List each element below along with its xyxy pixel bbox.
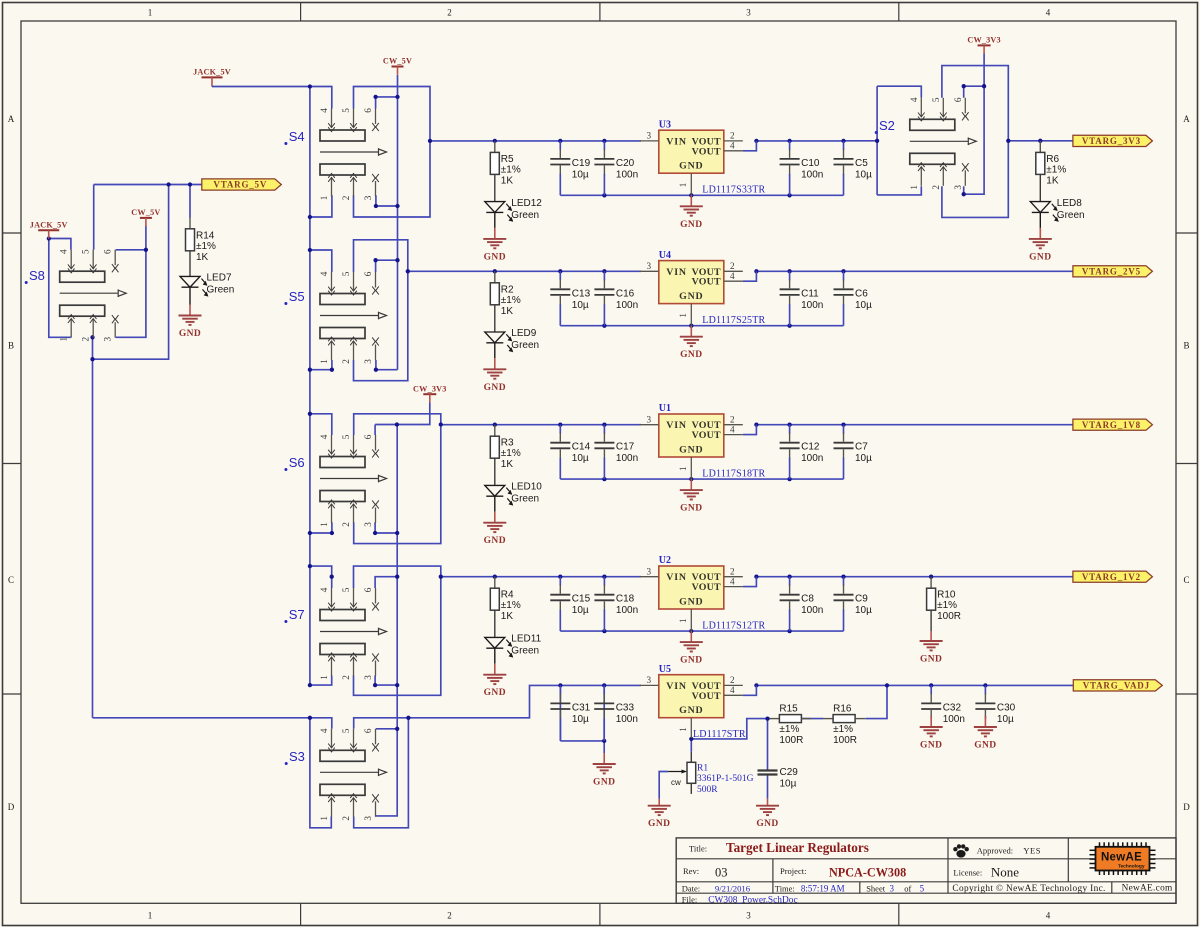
svg-text:LD1117STR: LD1117STR [693, 729, 746, 740]
svg-text:GND: GND [679, 161, 703, 172]
svg-text:YES: YES [1023, 846, 1041, 856]
svg-text:Green: Green [1057, 210, 1085, 221]
svg-text:±1%: ±1% [501, 600, 521, 611]
svg-text:9/21/2016: 9/21/2016 [715, 883, 751, 893]
svg-text:VIN: VIN [666, 572, 687, 583]
svg-text:10µ: 10µ [855, 453, 872, 464]
svg-text:4: 4 [319, 587, 329, 592]
svg-text:CW_3V3: CW_3V3 [413, 384, 447, 393]
svg-text:CW_5V: CW_5V [131, 208, 160, 217]
svg-text:8:57:19 AM: 8:57:19 AM [801, 883, 845, 893]
svg-text:VTARG_VADJ: VTARG_VADJ [1083, 681, 1150, 691]
svg-text:U2: U2 [659, 555, 671, 566]
svg-text:GND: GND [1029, 252, 1051, 262]
svg-text:3: 3 [746, 911, 751, 921]
svg-text:6: 6 [363, 728, 373, 733]
svg-text:Sheet: Sheet [866, 883, 886, 893]
svg-text:Technology: Technology [1118, 863, 1145, 869]
svg-text:1K: 1K [501, 306, 514, 317]
svg-text:4: 4 [730, 424, 735, 434]
svg-text:1: 1 [319, 195, 329, 200]
svg-text:R6: R6 [1046, 154, 1059, 165]
svg-text:S6: S6 [289, 455, 305, 470]
svg-text:10µ: 10µ [572, 300, 589, 311]
svg-text:10µ: 10µ [855, 605, 872, 616]
svg-text:C7: C7 [855, 442, 868, 453]
svg-text:VOUT: VOUT [692, 430, 721, 441]
svg-text:C14: C14 [572, 442, 591, 453]
svg-text:C10: C10 [801, 158, 820, 169]
svg-text:6: 6 [363, 271, 373, 276]
svg-text:1: 1 [148, 911, 153, 921]
svg-text:10µ: 10µ [572, 169, 589, 180]
svg-text:Approved:: Approved: [977, 846, 1013, 856]
svg-text:C5: C5 [855, 158, 868, 169]
svg-text:±1%: ±1% [196, 241, 216, 252]
svg-text:GND: GND [680, 220, 702, 230]
svg-text:R16: R16 [833, 704, 852, 715]
svg-text:2: 2 [730, 675, 735, 685]
svg-text:100n: 100n [616, 300, 638, 311]
svg-text:Rev:: Rev: [683, 866, 699, 876]
svg-text:10µ: 10µ [780, 779, 797, 790]
svg-text:VIN: VIN [666, 681, 687, 692]
svg-text:10µ: 10µ [572, 605, 589, 616]
svg-text:4: 4 [730, 685, 735, 695]
svg-text:B: B [1183, 341, 1189, 351]
svg-text:C32: C32 [943, 702, 962, 713]
svg-text:S8: S8 [29, 268, 45, 283]
svg-text:3: 3 [953, 185, 963, 190]
svg-text:GND: GND [484, 688, 506, 698]
svg-text:1: 1 [678, 313, 688, 318]
svg-text:1: 1 [909, 185, 919, 190]
svg-text:Title:: Title: [689, 844, 707, 854]
svg-text:D: D [8, 802, 15, 812]
svg-text:VTARG_1V8: VTARG_1V8 [1082, 420, 1141, 430]
svg-text:2: 2 [730, 415, 735, 425]
svg-text:1K: 1K [501, 611, 514, 622]
svg-text:S3: S3 [289, 749, 305, 764]
svg-text:4: 4 [319, 728, 329, 733]
svg-text:3: 3 [363, 359, 373, 364]
svg-text:GND: GND [920, 741, 942, 751]
svg-text:Project:: Project: [780, 866, 806, 876]
svg-text:NPCA-CW308: NPCA-CW308 [829, 865, 906, 879]
svg-text:3: 3 [103, 336, 113, 341]
svg-text:LD1117S18TR: LD1117S18TR [702, 469, 765, 480]
svg-text:GND: GND [679, 597, 703, 608]
svg-text:4: 4 [730, 271, 735, 281]
svg-text:±1%: ±1% [501, 164, 521, 175]
svg-text:4: 4 [319, 271, 329, 276]
svg-text:03: 03 [715, 865, 728, 879]
svg-text:R4: R4 [501, 590, 514, 601]
svg-text:VTARG_5V: VTARG_5V [213, 180, 267, 190]
svg-text:3: 3 [647, 131, 652, 141]
svg-text:Target Linear Regulators: Target Linear Regulators [726, 840, 869, 855]
svg-text:Date:: Date: [682, 883, 700, 893]
svg-text:1: 1 [678, 182, 688, 187]
svg-text:S7: S7 [289, 607, 305, 622]
svg-text:C16: C16 [616, 288, 635, 299]
svg-text:JACK_5V: JACK_5V [30, 221, 68, 230]
svg-text:100R: 100R [937, 611, 961, 622]
svg-text:GND: GND [756, 819, 778, 829]
svg-text:5: 5 [931, 97, 941, 102]
svg-text:R3: R3 [501, 438, 514, 449]
svg-text:CW308_Power.SchDoc: CW308_Power.SchDoc [708, 896, 797, 906]
svg-text:U5: U5 [659, 664, 671, 675]
svg-text:±1%: ±1% [937, 600, 957, 611]
svg-text:1K: 1K [501, 459, 514, 470]
svg-text:100R: 100R [833, 735, 857, 746]
svg-text:1: 1 [678, 727, 688, 732]
svg-text:2: 2 [730, 567, 735, 577]
svg-text:VTARG_2V5: VTARG_2V5 [1082, 267, 1141, 277]
svg-text:±1%: ±1% [501, 295, 521, 306]
svg-text:3: 3 [363, 522, 373, 527]
svg-text:2: 2 [730, 131, 735, 141]
svg-text:GND: GND [593, 778, 615, 788]
svg-text:1: 1 [59, 336, 69, 341]
svg-text:GND: GND [920, 655, 942, 665]
svg-text:3: 3 [363, 816, 373, 821]
svg-text:5: 5 [341, 434, 351, 439]
svg-text:GND: GND [974, 741, 996, 751]
svg-text:3: 3 [363, 675, 373, 680]
svg-text:4: 4 [1046, 911, 1051, 921]
svg-text:LED9: LED9 [511, 328, 536, 339]
svg-text:100n: 100n [616, 605, 638, 616]
svg-text:6: 6 [953, 97, 963, 102]
svg-text:VTARG_1V2: VTARG_1V2 [1082, 572, 1141, 582]
svg-text:R2: R2 [501, 284, 514, 295]
svg-text:C29: C29 [780, 767, 799, 778]
svg-text:2: 2 [447, 911, 452, 921]
svg-text:4: 4 [1046, 8, 1051, 18]
svg-text:C13: C13 [572, 288, 591, 299]
svg-text:±1%: ±1% [779, 724, 799, 735]
svg-text:2: 2 [341, 359, 351, 364]
svg-text:GND: GND [680, 350, 702, 360]
svg-text:Green: Green [207, 285, 235, 296]
svg-text:4: 4 [909, 97, 919, 102]
svg-text:C: C [8, 575, 14, 585]
svg-text:LED7: LED7 [207, 273, 232, 284]
svg-text:100n: 100n [616, 169, 638, 180]
svg-text:cw: cw [671, 778, 681, 787]
svg-text:Time:: Time: [775, 883, 795, 893]
svg-text:1: 1 [319, 675, 329, 680]
svg-text:JACK_5V: JACK_5V [193, 68, 231, 77]
svg-text:5: 5 [81, 249, 91, 254]
svg-text:C17: C17 [616, 442, 635, 453]
svg-text:GND: GND [679, 291, 703, 302]
svg-text:GND: GND [680, 656, 702, 666]
svg-text:2: 2 [81, 336, 91, 341]
svg-text:1: 1 [319, 359, 329, 364]
svg-text:10µ: 10µ [572, 714, 589, 725]
svg-text:5: 5 [341, 728, 351, 733]
svg-text:Copyright © NewAE Technology I: Copyright © NewAE Technology Inc. [952, 883, 1105, 894]
svg-text:Green: Green [511, 646, 539, 657]
svg-text:D: D [1183, 802, 1190, 812]
svg-text:1: 1 [319, 522, 329, 527]
svg-text:4: 4 [319, 108, 329, 113]
svg-text:100n: 100n [616, 453, 638, 464]
svg-text:VIN: VIN [666, 136, 687, 147]
svg-text:LD1117S33TR: LD1117S33TR [702, 185, 765, 196]
svg-text:Green: Green [511, 210, 539, 221]
svg-text:Green: Green [511, 494, 539, 505]
svg-text:VTARG_3V3: VTARG_3V3 [1082, 136, 1141, 146]
svg-text:C8: C8 [801, 594, 814, 605]
svg-text:GND: GND [679, 445, 703, 456]
svg-text:None: None [991, 865, 1019, 880]
svg-text:6: 6 [363, 434, 373, 439]
svg-text:1K: 1K [196, 252, 209, 263]
svg-text:A: A [1183, 114, 1190, 124]
svg-text:CW_5V: CW_5V [383, 57, 412, 66]
svg-text:10µ: 10µ [572, 453, 589, 464]
svg-text:2: 2 [931, 185, 941, 190]
svg-text:5: 5 [920, 883, 925, 893]
svg-text:VOUT: VOUT [692, 691, 721, 702]
svg-text:R5: R5 [501, 154, 514, 165]
svg-text:VIN: VIN [666, 420, 687, 431]
svg-text:U3: U3 [659, 119, 671, 130]
svg-text:GND: GND [648, 819, 670, 829]
svg-text:C12: C12 [801, 442, 820, 453]
svg-text:100n: 100n [801, 453, 823, 464]
svg-text:4: 4 [730, 141, 735, 151]
svg-text:C11: C11 [801, 288, 819, 299]
svg-text:2: 2 [341, 195, 351, 200]
svg-text:LD1117S12TR: LD1117S12TR [702, 621, 765, 632]
svg-text:3: 3 [647, 567, 652, 577]
svg-text:C6: C6 [855, 288, 868, 299]
svg-text:3: 3 [890, 883, 895, 893]
svg-text:VOUT: VOUT [692, 582, 721, 593]
svg-text:C9: C9 [855, 594, 868, 605]
svg-text:100n: 100n [801, 300, 823, 311]
svg-text:500R: 500R [697, 785, 718, 795]
svg-text:of: of [904, 883, 911, 893]
svg-text:A: A [8, 114, 15, 124]
svg-text:10µ: 10µ [855, 300, 872, 311]
svg-text:LED8: LED8 [1057, 198, 1082, 209]
svg-text:100n: 100n [801, 169, 823, 180]
svg-text:NewAE.com: NewAE.com [1122, 884, 1173, 894]
svg-text:C19: C19 [572, 158, 591, 169]
svg-text:4: 4 [319, 434, 329, 439]
svg-text:1: 1 [678, 466, 688, 471]
svg-text:2: 2 [341, 675, 351, 680]
svg-text:GND: GND [484, 383, 506, 393]
svg-text:GND: GND [484, 252, 506, 262]
svg-text:C20: C20 [616, 158, 635, 169]
svg-text:100n: 100n [801, 605, 823, 616]
svg-text:VOUT: VOUT [692, 146, 721, 157]
svg-text:GND: GND [680, 504, 702, 514]
svg-text:File:: File: [682, 895, 698, 905]
svg-text:U4: U4 [659, 250, 671, 261]
svg-text:C31: C31 [572, 702, 591, 713]
svg-text:1K: 1K [501, 175, 514, 186]
svg-text:C30: C30 [997, 702, 1016, 713]
svg-text:R14: R14 [196, 230, 215, 241]
svg-text:5: 5 [341, 587, 351, 592]
svg-text:10µ: 10µ [855, 169, 872, 180]
svg-text:3: 3 [647, 261, 652, 271]
svg-text:5: 5 [341, 271, 351, 276]
svg-text:±1%: ±1% [501, 448, 521, 459]
svg-text:GND: GND [179, 329, 201, 339]
svg-text:100n: 100n [616, 714, 638, 725]
svg-text:R15: R15 [779, 704, 798, 715]
svg-text:LED12: LED12 [511, 198, 542, 209]
svg-text:S2: S2 [879, 118, 895, 133]
svg-text:GND: GND [679, 705, 703, 716]
svg-text:U1: U1 [659, 403, 671, 414]
svg-text:1: 1 [678, 618, 688, 623]
svg-text:R10: R10 [937, 590, 956, 601]
svg-text:100R: 100R [779, 735, 803, 746]
svg-text:3: 3 [647, 675, 652, 685]
svg-text:CW_3V3: CW_3V3 [967, 36, 1001, 45]
svg-text:S4: S4 [289, 129, 305, 144]
svg-text:GND: GND [484, 536, 506, 546]
svg-text:3: 3 [647, 415, 652, 425]
svg-text:6: 6 [363, 108, 373, 113]
svg-text:LED11: LED11 [511, 634, 541, 645]
svg-text:±1%: ±1% [1046, 164, 1066, 175]
svg-text:4: 4 [730, 576, 735, 586]
svg-text:License:: License: [953, 868, 982, 878]
svg-text:C15: C15 [572, 594, 591, 605]
svg-text:S5: S5 [289, 289, 305, 304]
svg-text:2: 2 [341, 816, 351, 821]
svg-text:3361P-1-501G: 3361P-1-501G [697, 774, 754, 784]
svg-text:3: 3 [746, 8, 751, 18]
svg-text:2: 2 [730, 261, 735, 271]
svg-text:5: 5 [341, 108, 351, 113]
svg-text:4: 4 [59, 249, 69, 254]
svg-text:NewAE: NewAE [1101, 851, 1142, 863]
svg-text:100n: 100n [943, 714, 965, 725]
svg-text:2: 2 [341, 522, 351, 527]
svg-text:±1%: ±1% [833, 724, 853, 735]
svg-text:C: C [1183, 575, 1189, 585]
svg-text:1: 1 [148, 8, 153, 18]
svg-text:6: 6 [103, 249, 113, 254]
svg-text:C18: C18 [616, 594, 635, 605]
svg-text:3: 3 [363, 195, 373, 200]
svg-text:10µ: 10µ [997, 714, 1014, 725]
svg-text:1K: 1K [1046, 175, 1059, 186]
svg-text:R1: R1 [697, 764, 708, 774]
svg-text:Green: Green [511, 340, 539, 351]
svg-text:1: 1 [319, 816, 329, 821]
svg-text:LED10: LED10 [511, 482, 542, 493]
svg-text:B: B [8, 341, 14, 351]
svg-text:VIN: VIN [666, 267, 687, 278]
svg-text:2: 2 [447, 8, 452, 18]
svg-text:LD1117S25TR: LD1117S25TR [702, 315, 765, 326]
svg-text:VOUT: VOUT [692, 277, 721, 288]
svg-text:C33: C33 [616, 702, 635, 713]
svg-text:6: 6 [363, 587, 373, 592]
